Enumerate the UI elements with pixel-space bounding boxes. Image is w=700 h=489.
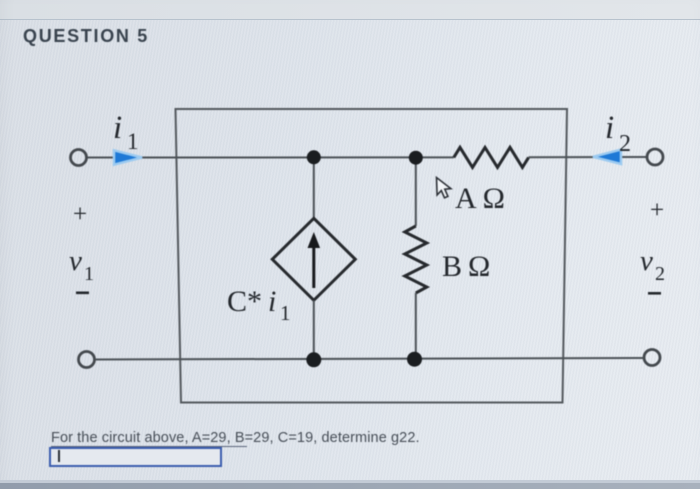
wire top right — [529, 156, 647, 158]
resistor A — [454, 147, 529, 167]
polarity minus v2 — [648, 292, 661, 295]
mouse cursor — [437, 178, 451, 198]
polarity plus v1 — [73, 201, 87, 228]
terminal bottom-left — [79, 352, 95, 368]
value label C*i1 — [227, 285, 291, 325]
bottom edge shading — [0, 480, 700, 483]
two-port network box — [176, 109, 568, 403]
node top-2 — [409, 151, 423, 165]
label v2 — [640, 245, 665, 285]
node bottom-1 — [306, 352, 321, 367]
terminal top-right — [647, 149, 663, 165]
terminal top-left — [71, 150, 87, 166]
current arrow i2 — [593, 150, 621, 164]
prompt underline — [51, 446, 247, 448]
wire resistor B branch bottom — [415, 293, 417, 359]
terminal bottom-right — [644, 350, 660, 366]
wire source branch bottom — [313, 300, 315, 360]
label i1 — [113, 110, 139, 154]
node top-1 — [307, 150, 321, 164]
answer input box — [49, 447, 222, 467]
value label B ohm — [442, 250, 490, 283]
text caret — [58, 450, 60, 462]
wire resistor B branch top — [415, 158, 417, 226]
question title — [23, 26, 149, 47]
resistor B — [405, 226, 427, 293]
label v1 — [69, 245, 94, 285]
polarity minus v1 — [76, 292, 89, 295]
value label A ohm — [455, 182, 505, 215]
source arrow — [308, 232, 321, 288]
question prompt — [51, 430, 420, 446]
label i2 — [605, 110, 631, 157]
node bottom-2 — [407, 352, 422, 367]
polarity plus v2 — [650, 197, 664, 224]
wire source branch top — [313, 157, 315, 218]
wire bottom — [95, 358, 644, 360]
wire top — [87, 156, 454, 158]
current arrow i1 — [114, 150, 142, 164]
dependent current source diamond — [272, 218, 355, 300]
